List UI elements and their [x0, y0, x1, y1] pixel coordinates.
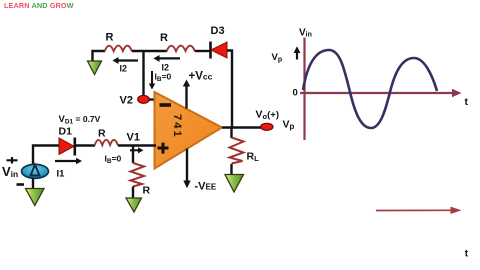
arrow I2 (left, under first R): [118, 59, 138, 61]
wire V2 to op-amp inverting input: [149, 98, 156, 100]
wire resistor to ground: [132, 187, 134, 199]
svg-text:R: R: [98, 128, 106, 140]
resistor R (top middle, label R): [167, 46, 196, 52]
diode D3 cathode bar: [209, 42, 212, 59]
wire Vin to D1: [33, 146, 59, 165]
svg-text:V2: V2: [120, 95, 133, 107]
svg-text:VD1 = 0.7V: VD1 = 0.7V: [59, 114, 101, 126]
wire junction down to V2: [142, 51, 144, 96]
arrow up (graph Vp): [296, 52, 298, 60]
svg-text:t: t: [465, 96, 469, 108]
wire D3 to feedback corner down to output: [227, 51, 232, 128]
svg-text:Vo(+): Vo(+): [256, 109, 279, 122]
resistor R (top left, label R): [105, 46, 133, 52]
arrow I1: [55, 160, 77, 162]
arrow IB=0 (down, at junction): [151, 71, 153, 84]
wire R to op-amp non-inverting input: [118, 144, 156, 146]
svg-text:0: 0: [293, 88, 298, 99]
svg-text:V1: V1: [127, 132, 140, 144]
sine waveform: [303, 50, 437, 128]
wire top-left ground stub and horizontal to R: [93, 51, 106, 62]
svg-text:741: 741: [171, 114, 183, 139]
wire source to ground: [32, 178, 34, 189]
+Vcc arrow: [185, 85, 187, 109]
ground (V1 resistor): [126, 198, 142, 212]
wire R to D3: [195, 50, 211, 52]
wire output down to RL: [230, 128, 232, 139]
wire V1 down to resistor: [132, 146, 134, 164]
source Vin minus sign: [17, 183, 25, 186]
svg-text:I1: I1: [57, 169, 66, 180]
arrow time (bottom red): [376, 209, 451, 211]
ground (RL): [225, 175, 244, 193]
node V2 (red ellipse): [138, 95, 150, 103]
graph x-axis: [300, 92, 452, 94]
node Vo terminal (red ellipse): [261, 123, 273, 130]
source Vin plus sign: [7, 157, 18, 164]
ground (top left): [88, 61, 102, 75]
op-amp U1 741: [155, 92, 223, 169]
ground (source): [26, 189, 45, 206]
svg-text:R: R: [143, 185, 151, 197]
svg-text:-VEE: -VEE: [195, 181, 217, 193]
svg-text:I2: I2: [120, 64, 128, 74]
arrow I2 (right, under second R): [159, 57, 180, 59]
resistor R (V1 to ground, vertical): [131, 163, 145, 187]
arrow IB=0 (right, at V1): [130, 149, 139, 151]
wire between R and R (top): [132, 50, 167, 52]
svg-text:LEARN AND GROW: LEARN AND GROW: [4, 1, 74, 10]
op-amp minus sign: [160, 103, 172, 107]
svg-text:R: R: [160, 32, 168, 44]
wire D1 to R: [75, 144, 95, 146]
op-amp plus sign: [158, 143, 169, 154]
diode D1: [59, 138, 74, 155]
svg-text:D3: D3: [211, 25, 225, 37]
source Vin (AC source ellipse): [22, 164, 49, 178]
svg-text:R: R: [106, 32, 114, 44]
source Vin triangle symbol: [31, 165, 40, 176]
resistor R (series, before V1): [95, 140, 119, 146]
diode D3: [211, 42, 227, 58]
resistor RL (vertical): [230, 138, 244, 164]
graph y-axis: [303, 38, 305, 141]
svg-text:D1: D1: [59, 126, 73, 138]
svg-text:+Vcc: +Vcc: [189, 71, 213, 83]
diode D1 cathode bar: [74, 138, 77, 156]
wire op-amp output to Vo terminal: [222, 126, 261, 128]
wire RL to ground: [230, 164, 232, 175]
-VEE arrow: [186, 149, 188, 182]
